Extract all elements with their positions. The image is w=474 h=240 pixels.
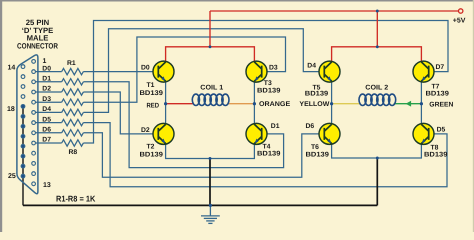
resistor R1	[62, 68, 84, 74]
wire D5 net: pin7 to R6, down at x110.1, bottom run y186.8, up at x447 to T8 base	[35, 123, 447, 187]
ground symbol	[201, 205, 220, 223]
resistor R3	[62, 89, 84, 95]
terminal +5V	[459, 9, 463, 13]
wire RED motor lead	[166, 103, 193, 105]
wire bridge1 ground drop	[209, 159, 211, 206]
resistor R2	[62, 79, 84, 85]
svg-text:RED: RED	[147, 102, 160, 109]
svg-text:BD139: BD139	[257, 88, 281, 95]
svg-text:BD139: BD139	[257, 151, 281, 158]
svg-text:D4: D4	[307, 63, 316, 70]
svg-text:18: 18	[7, 106, 15, 113]
svg-text:BD139: BD139	[424, 151, 448, 158]
svg-text:14: 14	[8, 64, 16, 71]
wire D4 net: pin6 to R5, up at x108.5, top run y28.7, down at x303.3 to T5 base	[35, 29, 319, 113]
svg-text:YELLOW: YELLOW	[299, 101, 330, 108]
transistor T5	[319, 61, 340, 82]
svg-text:D7: D7	[42, 137, 51, 144]
transistor T1	[153, 61, 174, 82]
transistor T3 (mirrored)	[246, 61, 267, 82]
node bridge2 rail junction	[376, 10, 379, 13]
label connector title	[17, 18, 58, 50]
svg-text:CONNECTOR: CONNECTOR	[17, 41, 58, 50]
svg-text:D7: D7	[436, 64, 445, 71]
resistor R6	[62, 119, 84, 125]
wire GREEN motor lead	[394, 103, 422, 105]
svg-text:D2: D2	[141, 127, 150, 134]
wire D7 net: pin9 to R8, up at x93.5, top run y20.5, down at x448 to T7 base	[35, 21, 448, 144]
resistor R7	[62, 130, 84, 136]
svg-text:COIL 1: COIL 1	[200, 85, 223, 92]
connector DB25 outline	[17, 55, 38, 194]
svg-text:D5: D5	[42, 116, 51, 123]
svg-text:D0: D0	[42, 65, 51, 72]
svg-text:D5: D5	[437, 127, 446, 134]
node bridge1 emitter junction	[209, 157, 212, 160]
wire bridge2 emitter join	[332, 144, 422, 159]
svg-text:+5V: +5V	[453, 18, 466, 25]
svg-text:T1: T1	[147, 82, 155, 89]
svg-text:D6: D6	[42, 127, 51, 134]
transistor T4 (mirrored)	[246, 123, 267, 144]
wire YELLOW motor lead	[332, 103, 360, 105]
wire bridge2 collector red	[332, 47, 422, 62]
border right strip	[473, 0, 474, 232]
svg-text:BD139: BD139	[306, 151, 330, 158]
svg-text:BD139: BD139	[426, 90, 450, 97]
transistor T8 (mirrored)	[413, 123, 434, 144]
svg-text:COIL 2: COIL 2	[365, 85, 388, 92]
wire T3-T4 interconnect	[253, 81, 255, 125]
node bridge2 +5V junction	[376, 45, 379, 48]
border left strip	[0, 0, 2, 232]
wire T7-T8 interconnect	[420, 81, 422, 125]
svg-text:D2: D2	[42, 86, 51, 93]
wire T5-T6 interconnect	[331, 81, 333, 125]
transistor T7 (mirrored)	[413, 61, 434, 82]
node bridge1 +5V junction	[209, 45, 212, 48]
svg-text:R1-R8 = 1K: R1-R8 = 1K	[56, 194, 95, 204]
svg-text:D0: D0	[141, 65, 150, 72]
node YELLOW	[330, 102, 333, 105]
node GREEN	[420, 102, 423, 105]
svg-text:1: 1	[43, 58, 47, 65]
svg-text:BD139: BD139	[305, 90, 329, 97]
wire connector ground bus	[22, 106, 24, 205]
resistor R8	[62, 140, 84, 146]
coil COIL2	[359, 94, 396, 105]
node bridge2 emitter junction	[376, 157, 379, 160]
wire D1 net: pin3 to R2, down at x129.1, bottom run y167.6, up to T4 base	[35, 82, 283, 168]
svg-text:T3: T3	[264, 80, 272, 87]
svg-text:BD139: BD139	[140, 90, 164, 97]
svg-text:25: 25	[8, 173, 16, 180]
wire bridge1 collector red	[166, 47, 255, 62]
svg-text:D3: D3	[42, 96, 51, 103]
resistor R4	[62, 99, 84, 105]
transistor T6	[319, 123, 340, 144]
wire D3 net: pin5 to R4, up at x136.9, top run y37, down at x285.5 to T3 base	[35, 37, 285, 102]
svg-text:R8: R8	[69, 149, 78, 156]
resistor R5	[62, 109, 84, 115]
svg-text:R1: R1	[67, 60, 76, 67]
wire bridge2 +5V riser	[376, 11, 378, 47]
wire +5V rail	[210, 10, 458, 12]
svg-text:T6: T6	[311, 144, 319, 151]
svg-text:D3: D3	[269, 65, 278, 72]
svg-text:D6: D6	[306, 123, 315, 130]
arrow on green wire	[406, 101, 412, 107]
wire bridge1 emitter join	[166, 144, 255, 159]
connector pins right column (1-13)	[32, 60, 36, 186]
svg-text:D1: D1	[42, 76, 51, 83]
connector pins left column open (14-17)	[21, 65, 25, 99]
wire ORANGE motor lead	[228, 103, 254, 105]
node RED	[164, 102, 167, 105]
svg-text:D1: D1	[271, 123, 280, 130]
svg-text:D4: D4	[42, 106, 51, 113]
coil COIL1	[192, 94, 229, 105]
wire T1-T2 interconnect	[165, 81, 167, 125]
border top strip	[0, 0, 474, 2]
connector pins left column grounded (18-25)	[21, 105, 25, 178]
transistor T2	[153, 123, 174, 144]
wire ground rail	[23, 204, 377, 206]
svg-text:T2: T2	[147, 143, 155, 150]
svg-text:T4: T4	[263, 143, 271, 150]
svg-text:ORANGE: ORANGE	[259, 101, 291, 108]
wire D2 net: pin4 to R3, down at x120.3 to T2 base	[35, 92, 153, 134]
svg-text:13: 13	[43, 182, 51, 189]
svg-text:BD139: BD139	[140, 151, 164, 158]
svg-text:T8: T8	[431, 144, 439, 151]
svg-text:GREEN: GREEN	[429, 101, 453, 108]
node ORANGE	[253, 102, 256, 105]
wire bridge1 +5V riser	[209, 11, 211, 47]
wire D6 net: pin8 to R7, down at x102.4, bottom run y177.2, up at x301.8 to T6 base	[35, 133, 319, 177]
node ground rail junction	[209, 204, 212, 207]
wire D0 net: pin2 to R1 to T1 base	[35, 71, 153, 73]
wire bridge2 ground drop	[376, 158, 378, 205]
